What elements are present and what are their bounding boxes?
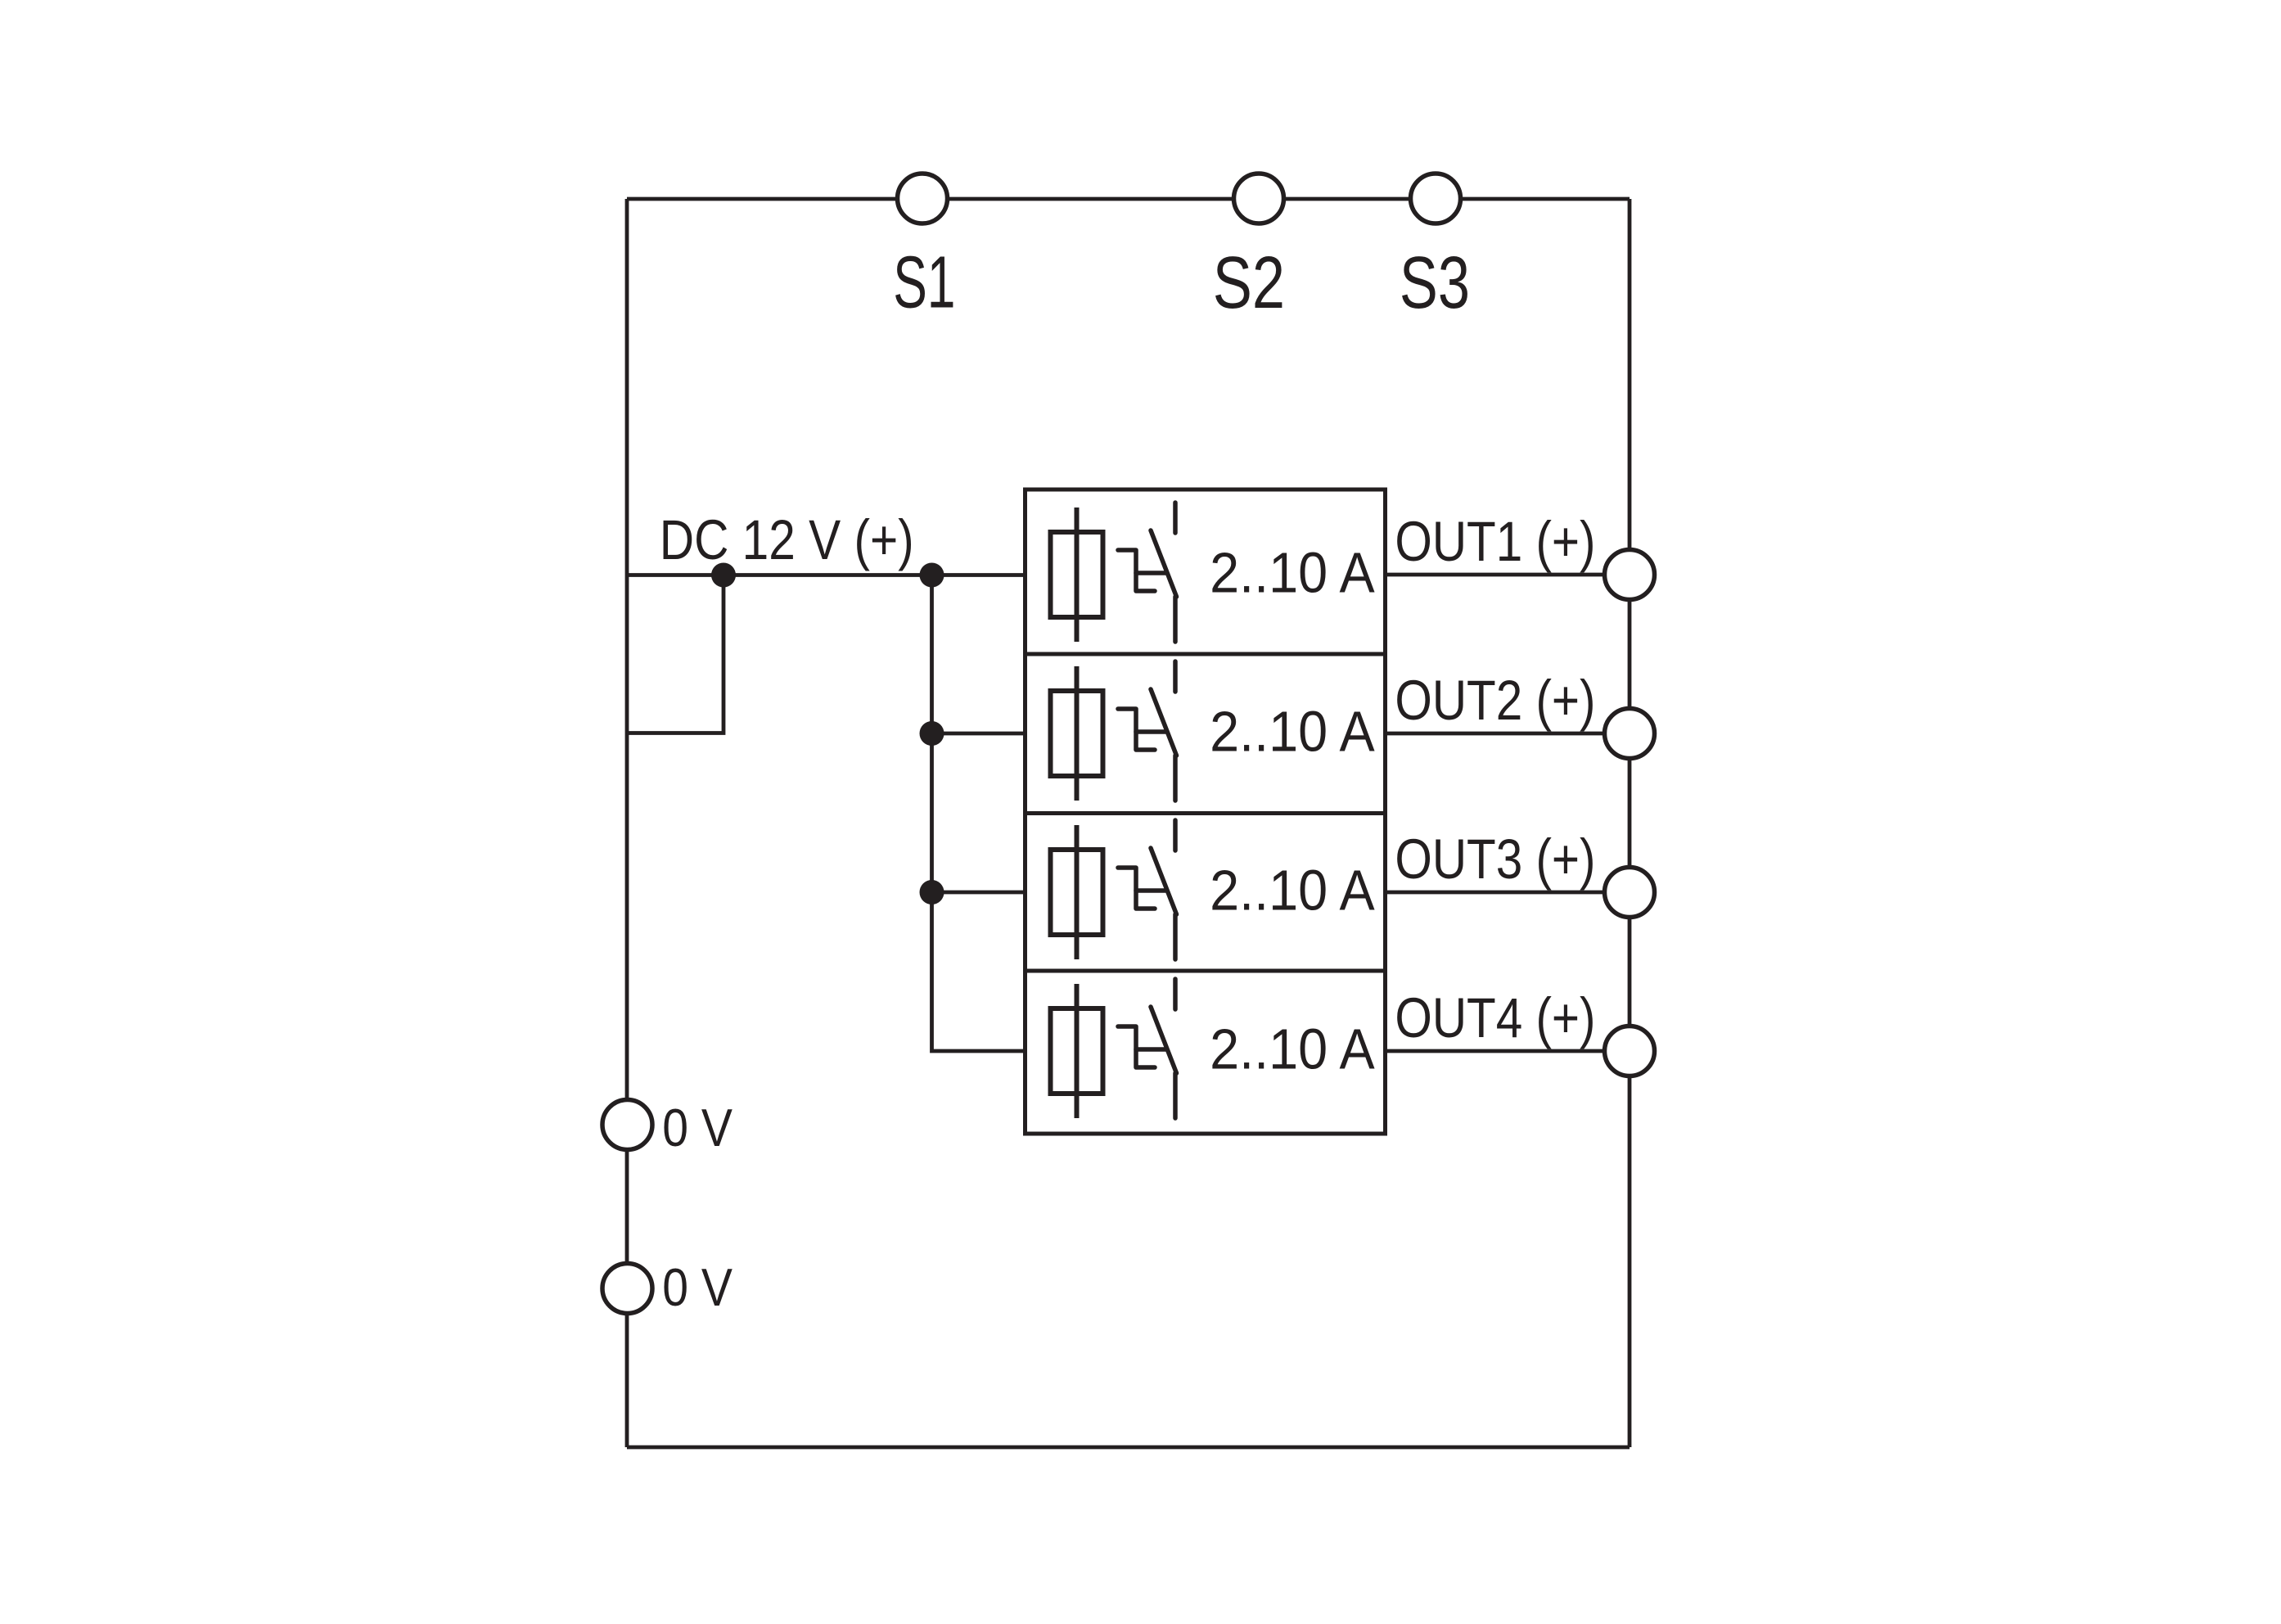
terminal S3 [1411,174,1461,223]
svg-text:S2: S2 [1213,241,1285,323]
svg-text:0 V: 0 V [662,1258,733,1317]
terminal 0V upper [602,1100,652,1150]
wire left tap L [627,575,724,733]
node dot DC bus junction 1 [711,563,736,588]
wire OUT3 [1386,891,1630,895]
wire outer loop left [625,199,629,1447]
terminal OUT3 [1605,868,1655,918]
wire outer loop top [627,197,1630,201]
wire channel 3 input [932,891,1026,895]
svg-text:OUT4 (+): OUT4 (+) [1395,986,1595,1049]
terminal S2 [1234,174,1284,223]
channel 2 fuse F2 [1051,666,1103,801]
svg-text:2..10 A: 2..10 A [1210,541,1375,605]
channel 1 switch contact S [1118,503,1177,642]
terminal OUT2 [1605,709,1655,759]
svg-text:OUT2 (+): OUT2 (+) [1395,668,1595,732]
wire OUT1 [1386,573,1630,577]
terminal OUT4 [1605,1026,1655,1076]
wire bus vertical [932,575,1026,1052]
node dot DC bus junction 2 [920,563,944,588]
terminal OUT1 [1605,550,1655,600]
svg-text:2..10 A: 2..10 A [1210,859,1375,923]
wire OUT4 [1386,1049,1630,1053]
svg-text:0 V: 0 V [662,1098,733,1157]
terminal S1 [898,174,948,223]
svg-text:OUT3 (+): OUT3 (+) [1395,827,1595,891]
wire outer loop right [1628,199,1632,1447]
node dot channel 2 branch [920,721,944,746]
svg-text:DC 12 V (+): DC 12 V (+) [660,508,914,571]
wire channel 2 input [932,732,1026,736]
module box U1 (4-channel electronic circuit breaker) [1026,489,1386,1134]
channel 1 fuse F1 [1051,508,1103,642]
svg-text:2..10 A: 2..10 A [1210,1017,1375,1081]
channel 4 switch contact [1118,979,1177,1118]
wire DC bus [627,573,1026,577]
wire OUT2 [1386,732,1630,736]
channel 3 switch contact [1118,820,1177,959]
svg-text:OUT1 (+): OUT1 (+) [1395,509,1595,573]
wire outer loop bottom [627,1446,1630,1450]
terminal 0V lower [602,1264,652,1314]
svg-text:S3: S3 [1400,242,1470,324]
channel 2 switch contact [1118,661,1177,801]
channel 3 fuse F3 [1051,825,1103,959]
node dot channel 3 branch [920,880,944,904]
svg-text:S1: S1 [893,241,955,323]
svg-text:2..10 A: 2..10 A [1210,700,1375,764]
channel 4 fuse F4 [1051,984,1103,1118]
